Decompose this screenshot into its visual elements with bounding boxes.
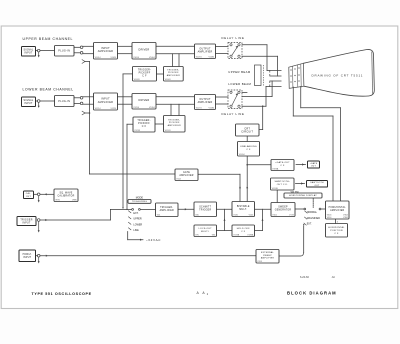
svg-text:DRIVER: DRIVER [139, 99, 150, 102]
svg-text:C F: C F [142, 126, 147, 128]
svg-text:TRIGGER-: TRIGGER- [160, 207, 173, 209]
svg-text:UPPER BEAM CHANNEL: UPPER BEAM CHANNEL [23, 37, 74, 41]
svg-text:EXTERNAL: EXTERNAL [261, 251, 275, 254]
svg-text:SIGNAL: SIGNAL [24, 99, 34, 102]
svg-text:V1274: V1274 [196, 107, 203, 109]
svg-text:OUT: OUT [26, 196, 32, 198]
svg-text:AMPLIFIER: AMPLIFIER [179, 174, 193, 177]
svg-text:V1243: V1243 [165, 130, 172, 132]
svg-text:PLUG-IN: PLUG-IN [58, 50, 70, 53]
svg-text:LOWER BEAM CHANNEL: LOWER BEAM CHANNEL [23, 88, 74, 92]
svg-text:POSITION: POSITION [330, 230, 343, 232]
svg-text:V1014: V1014 [95, 57, 102, 59]
svg-text:C F: C F [334, 233, 339, 235]
svg-text:INPUT: INPUT [22, 222, 30, 224]
svg-text:V1254: V1254 [133, 107, 140, 109]
svg-text:OUT: OUT [315, 185, 321, 187]
svg-text:HORIZONTAL: HORIZONTAL [328, 226, 345, 229]
svg-text:AMPLIFIER: AMPLIFIER [160, 209, 174, 212]
svg-text:PLUG-IN: PLUG-IN [58, 100, 70, 103]
svg-text:AMPLIFIER: AMPLIFIER [98, 50, 113, 53]
svg-text:AMPLIFIER: AMPLIFIER [330, 209, 344, 212]
svg-text:MULTI.: MULTI. [201, 231, 210, 233]
svg-text:AMPLIFIER: AMPLIFIER [168, 124, 181, 127]
svg-text:EXT.: EXT. [133, 212, 138, 215]
svg-text:V1233: V1233 [134, 130, 141, 132]
svg-text:SWEEP: SWEEP [263, 255, 272, 257]
svg-text:UPPER BEAM: UPPER BEAM [228, 70, 251, 74]
svg-text:INPUT: INPUT [24, 53, 32, 55]
svg-text:TRIGGER-: TRIGGER- [167, 69, 179, 71]
svg-text:V1054: V1054 [133, 57, 140, 59]
svg-text:GATE: GATE [183, 171, 190, 174]
svg-text:DRIVER: DRIVER [139, 49, 150, 52]
svg-text:V1043: V1043 [165, 79, 172, 81]
svg-text:BLOCK DIAGRAM: BLOCK DIAGRAM [287, 291, 337, 296]
svg-text:PICKOFF: PICKOFF [139, 72, 151, 74]
svg-text:JH: JH [332, 275, 335, 279]
svg-text:OUT: OUT [311, 166, 317, 168]
svg-text:HORIZ.: HORIZ. [23, 254, 32, 256]
svg-text:SCHMITT: SCHMITT [199, 206, 211, 208]
svg-text:LOWER BEAM: LOWER BEAM [228, 82, 251, 86]
svg-text:EXT.: EXT. [307, 223, 312, 226]
svg-text:C F: C F [241, 231, 246, 233]
svg-text:V1214: V1214 [95, 108, 102, 110]
svg-text:+GATE: +GATE [310, 162, 318, 165]
svg-text:PICKOFF: PICKOFF [168, 72, 179, 74]
svg-text:SAWTOOTH-: SAWTOOTH- [275, 180, 291, 183]
svg-text:V1284: V1284 [209, 107, 216, 109]
svg-text:SQ. WAVE: SQ. WAVE [59, 191, 72, 194]
svg-text:V193B: V193B [272, 188, 279, 190]
svg-text:DELAY LINE: DELAY LINE [222, 112, 245, 116]
svg-text:V1024: V1024 [111, 57, 118, 59]
svg-text:LOCK-OUT: LOCK-OUT [199, 228, 213, 230]
svg-text:DRAWING OF CRT T5511: DRAWING OF CRT T5511 [312, 73, 364, 77]
svg-text:DELAY LINE: DELAY LINE [222, 36, 245, 40]
svg-text:GENERATOR: GENERATOR [275, 209, 292, 212]
svg-text:TRIGGER: TRIGGER [20, 219, 32, 221]
svg-text:UNBLANKING: UNBLANKING [240, 145, 257, 148]
svg-text:AMPLIFIER: AMPLIFIER [198, 101, 213, 104]
svg-text:HORIZONTAL DISPLAY: HORIZONTAL DISPLAY [289, 194, 317, 197]
svg-text:BISTABLE: BISTABLE [237, 205, 250, 208]
svg-text:LOWER: LOWER [133, 223, 142, 226]
svg-text:V193A: V193A [272, 167, 279, 170]
svg-text:AMPLIFIER: AMPLIFIER [167, 74, 180, 77]
svg-text:NORMAL: NORMAL [307, 211, 318, 214]
svg-text:MAGNIFIED: MAGNIFIED [307, 217, 321, 220]
svg-text:C F: C F [280, 165, 285, 167]
svg-text:6-20-60: 6-20-60 [300, 275, 309, 279]
svg-text:AMPLIFIER: AMPLIFIER [98, 101, 113, 104]
svg-text:V1084: V1084 [209, 56, 216, 58]
svg-text:V1033: V1033 [134, 79, 141, 81]
svg-text:PICKOFF: PICKOFF [138, 123, 150, 125]
svg-text:V183A: V183A [247, 233, 254, 236]
svg-text:SWEEP: SWEEP [278, 207, 288, 209]
svg-text:TYPE 551 OSCILLOSCOPE: TYPE 551 OSCILLOSCOPE [32, 292, 92, 296]
svg-text:INPUT: INPUT [24, 103, 32, 105]
svg-text:TRIGGER-: TRIGGER- [138, 69, 151, 71]
svg-text:~ 6.3 V A-C: ~ 6.3 V A-C [146, 238, 160, 242]
svg-text:V1264: V1264 [149, 107, 156, 109]
svg-text:C F: C F [246, 149, 251, 151]
svg-text:C F: C F [142, 75, 147, 77]
svg-text:AMPLIFIER: AMPLIFIER [198, 51, 213, 54]
svg-text:MULT.: MULT. [239, 209, 247, 211]
svg-text:INPUT: INPUT [23, 257, 31, 259]
svg-text:CAL.: CAL. [26, 192, 32, 195]
svg-text:V1074: V1074 [196, 56, 203, 58]
svg-text:TRIGGER: TRIGGER [199, 209, 211, 211]
svg-text:A A: A A [197, 291, 207, 295]
svg-text:SAWTOOTH: SAWTOOTH [310, 181, 324, 184]
svg-text:+GATE-OUT: +GATE-OUT [275, 161, 290, 164]
svg-text:V1064: V1064 [149, 57, 156, 59]
svg-text:V173B: V173B [233, 234, 240, 236]
svg-text:CIRCUIT: CIRCUIT [241, 131, 253, 134]
svg-text:OUT C.F.: OUT C.F. [277, 184, 288, 186]
svg-text:HORIZONTAL: HORIZONTAL [329, 206, 347, 209]
svg-text:PICKOFF: PICKOFF [169, 122, 180, 124]
svg-text:TRIGGER-: TRIGGER- [137, 120, 150, 122]
svg-text:MODE: MODE [136, 196, 144, 199]
svg-text:SIGNAL: SIGNAL [24, 49, 34, 52]
svg-text:TRIGGER-: TRIGGER- [168, 119, 180, 121]
svg-text:HOLD OFF: HOLD OFF [237, 228, 250, 230]
svg-text:V1224: V1224 [111, 108, 118, 110]
svg-text:AMPLIFIER: AMPLIFIER [261, 257, 274, 260]
svg-text:UPPER: UPPER [133, 218, 142, 221]
svg-text:LINE: LINE [133, 229, 139, 232]
svg-text:CALIBRATOR: CALIBRATOR [58, 194, 75, 197]
svg-text:V1094: V1094 [239, 154, 246, 156]
svg-text:TRIGGERING: TRIGGERING [132, 201, 147, 203]
